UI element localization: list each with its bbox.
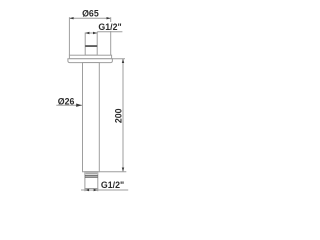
dimension 200 reference line bottom: [99, 171, 126, 173]
flange escutcheon Ø65: [68, 55, 113, 62]
nipple width dimension arrows: [85, 32, 97, 34]
dimension Ø65 line: [69, 17, 110, 19]
svg-text:200: 200: [114, 108, 124, 123]
dimension 200 reference line top: [112, 58, 125, 60]
extension line left of Ø65: [68, 17, 70, 55]
label G1/2" bottom: [101, 180, 124, 190]
label 200 (rotated): [114, 108, 124, 123]
label Ø26 with leader: [56, 97, 82, 107]
threaded end G1/2 bottom: [85, 172, 98, 191]
bottom thread width dimension with arrows: [81, 189, 128, 191]
extension line right of Ø65 (broken by text): [110, 17, 112, 55]
threaded nipple G1/2 top: [85, 32, 97, 56]
svg-text:Ø65: Ø65: [82, 9, 99, 19]
svg-text:G1/2": G1/2": [98, 22, 121, 32]
label Ø65: [82, 9, 99, 19]
pipe body Ø26: [83, 63, 100, 172]
svg-text:G1/2": G1/2": [101, 180, 124, 190]
dimension 200 vertical line: [122, 59, 124, 172]
label G1/2" top: [97, 22, 122, 32]
